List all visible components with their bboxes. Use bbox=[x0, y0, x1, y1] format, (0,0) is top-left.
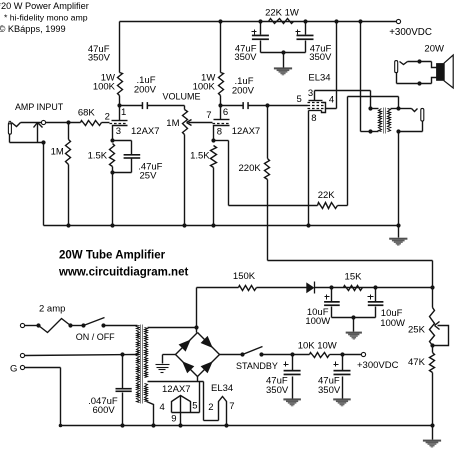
svg-text:22K: 22K bbox=[318, 190, 336, 201]
svg-text:22K 1W: 22K 1W bbox=[265, 7, 299, 18]
svg-text:8: 8 bbox=[217, 126, 222, 137]
svg-text:350V: 350V bbox=[318, 385, 341, 396]
svg-text:6: 6 bbox=[223, 107, 228, 118]
svg-text:© KBápps, 1999: © KBápps, 1999 bbox=[0, 24, 66, 34]
svg-text:+300VDC: +300VDC bbox=[389, 27, 432, 38]
svg-text:5: 5 bbox=[297, 94, 302, 105]
svg-text:1M: 1M bbox=[51, 146, 64, 157]
svg-text:150K: 150K bbox=[233, 271, 256, 282]
svg-text:20W Tube Amplifier: 20W Tube Amplifier bbox=[59, 249, 166, 261]
svg-text:8: 8 bbox=[311, 113, 316, 124]
svg-text:3: 3 bbox=[308, 88, 313, 99]
svg-text:350V: 350V bbox=[88, 53, 111, 64]
svg-text:2 amp: 2 amp bbox=[39, 304, 65, 315]
svg-text:100K: 100K bbox=[93, 82, 116, 93]
svg-text:25K: 25K bbox=[408, 324, 426, 335]
svg-text:68K: 68K bbox=[78, 108, 96, 119]
svg-text:1.5K: 1.5K bbox=[88, 150, 108, 161]
svg-text:350V: 350V bbox=[266, 385, 289, 396]
svg-text:200V: 200V bbox=[134, 85, 157, 96]
svg-text:EL34: EL34 bbox=[211, 383, 233, 394]
svg-text:*20 W Power Amplifier: *20 W Power Amplifier bbox=[0, 1, 89, 11]
svg-text:12AX7: 12AX7 bbox=[131, 126, 160, 137]
svg-text:9: 9 bbox=[171, 414, 176, 425]
svg-text:220K: 220K bbox=[239, 163, 262, 174]
svg-text:G: G bbox=[10, 363, 17, 374]
svg-text:www.circuitdiagram.net: www.circuitdiagram.net bbox=[58, 266, 188, 278]
svg-text:47K: 47K bbox=[408, 357, 426, 368]
svg-text:1M: 1M bbox=[166, 118, 179, 129]
svg-text:4: 4 bbox=[160, 402, 165, 413]
svg-text:10K 10W: 10K 10W bbox=[298, 340, 337, 351]
svg-text:1.5K: 1.5K bbox=[190, 151, 210, 162]
svg-text:100W: 100W bbox=[305, 316, 330, 327]
svg-text:5: 5 bbox=[192, 400, 197, 411]
svg-text:EL34: EL34 bbox=[308, 73, 330, 84]
svg-text:AMP INPUT: AMP INPUT bbox=[15, 102, 64, 112]
svg-text:* hi-fidelity mono amp: * hi-fidelity mono amp bbox=[4, 13, 88, 23]
svg-text:12AX7: 12AX7 bbox=[232, 126, 261, 137]
svg-text:25V: 25V bbox=[140, 171, 158, 182]
svg-text:7: 7 bbox=[229, 401, 234, 412]
svg-text:12AX7: 12AX7 bbox=[162, 384, 191, 395]
svg-text:3: 3 bbox=[116, 126, 121, 137]
svg-text:+300VDC: +300VDC bbox=[357, 360, 399, 371]
svg-text:350V: 350V bbox=[234, 52, 257, 63]
svg-text:2: 2 bbox=[105, 112, 110, 123]
svg-text:350V: 350V bbox=[309, 52, 332, 63]
svg-text:STANDBY: STANDBY bbox=[236, 361, 278, 371]
svg-text:200V: 200V bbox=[232, 85, 255, 96]
svg-text:1: 1 bbox=[121, 107, 126, 118]
svg-text:7: 7 bbox=[206, 110, 211, 121]
svg-text:VOLUME: VOLUME bbox=[163, 92, 201, 102]
svg-text:2: 2 bbox=[208, 402, 213, 413]
svg-text:ON / OFF: ON / OFF bbox=[76, 332, 115, 342]
svg-text:100W: 100W bbox=[380, 318, 405, 329]
svg-text:20W: 20W bbox=[424, 44, 444, 55]
svg-text:600V: 600V bbox=[93, 405, 116, 416]
svg-text:15K: 15K bbox=[345, 272, 363, 283]
svg-text:4: 4 bbox=[329, 95, 334, 106]
